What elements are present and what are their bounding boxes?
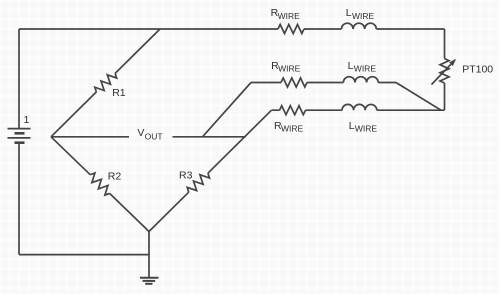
- svg-text:R3: R3: [179, 170, 193, 182]
- resistor R2: [90, 173, 109, 195]
- resistor RWIRE top: [278, 25, 304, 34]
- label VOUT: [137, 127, 162, 141]
- svg-text:L: L: [349, 120, 355, 132]
- inductor LWIRE top: [342, 23, 377, 29]
- svg-text:PT100: PT100: [462, 64, 493, 76]
- wire R2 upper lead (left vertex to R2): [51, 137, 90, 175]
- wire R1 lower lead (left vertex to R1): [51, 92, 96, 137]
- label LWIRE top: [346, 7, 375, 21]
- wire middle sense path horizontal: [251, 82, 396, 84]
- thermistor PT100: [432, 59, 457, 85]
- svg-text:R1: R1: [112, 87, 126, 99]
- label RWIRE bottom: [274, 120, 304, 134]
- wire R1 upper lead (R1 to top bus node): [115, 29, 160, 73]
- resistor RWIRE bottom: [280, 106, 306, 115]
- svg-text:L: L: [346, 7, 352, 19]
- wire bottom sense path horizontal: [272, 109, 445, 111]
- svg-text:WIRE: WIRE: [278, 11, 301, 21]
- label 1 (battery): [24, 114, 30, 126]
- label RWIRE top: [271, 7, 301, 21]
- svg-text:R2: R2: [108, 171, 122, 183]
- svg-text:1: 1: [24, 114, 30, 126]
- inductor LWIRE middle: [343, 77, 378, 83]
- label RWIRE middle: [271, 60, 301, 74]
- wire right drop to PT100 top: [444, 29, 446, 59]
- svg-text:WIRE: WIRE: [278, 64, 301, 74]
- battery 1: [8, 129, 31, 143]
- wire bottom bus: [19, 254, 149, 256]
- wire VOUT left segment: [51, 136, 129, 138]
- svg-text:WIRE: WIRE: [354, 64, 377, 74]
- wire VOUT right segment to R3 diagonal junction: [173, 136, 246, 138]
- wire middle path diagonal down to PT100 bottom node: [396, 83, 441, 111]
- wire left vertical upper (battery top lead): [18, 29, 20, 129]
- label LWIRE bottom: [349, 120, 378, 134]
- wire ground stem from bridge bottom node: [148, 232, 150, 278]
- label R2: [108, 171, 122, 183]
- resistor R3: [187, 173, 209, 192]
- svg-text:WIRE: WIRE: [352, 11, 375, 21]
- svg-text:WIRE: WIRE: [355, 124, 378, 134]
- wire R3 lower lead (bottom node to R3): [149, 192, 189, 231]
- label LWIRE middle: [348, 60, 377, 74]
- svg-text:WIRE: WIRE: [281, 124, 304, 134]
- wire left vertical lower (battery bottom lead): [18, 143, 20, 255]
- inductor LWIRE bottom: [342, 104, 377, 110]
- svg-text:V: V: [137, 127, 144, 139]
- svg-text:L: L: [348, 60, 354, 72]
- wire diagonal VOUT junction up to middle sense path: [203, 83, 252, 137]
- label PT100: [462, 64, 493, 76]
- wire top bus from battery to PT100: [19, 28, 445, 30]
- ground: [140, 278, 159, 284]
- wire R2 lower lead (R2 to bottom node): [110, 193, 149, 231]
- wire R3 upper lead (R3 to bottom sense path): [208, 110, 272, 173]
- label R1: [112, 87, 126, 99]
- resistor R1: [95, 73, 117, 92]
- label R3: [179, 170, 193, 182]
- svg-text:OUT: OUT: [145, 132, 163, 142]
- resistor RWIRE middle: [281, 78, 307, 87]
- wire PT100 bottom lead: [444, 83, 446, 110]
